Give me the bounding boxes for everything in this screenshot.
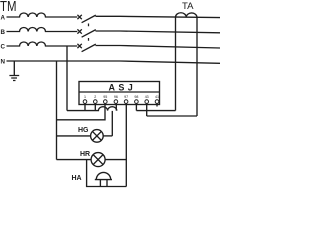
svg-text:TM: TM [0, 0, 17, 15]
svg-text:B: B [1, 29, 6, 36]
svg-text:2: 2 [94, 95, 96, 99]
svg-text:95: 95 [103, 95, 107, 99]
svg-text:TA: TA [182, 1, 194, 11]
svg-text:98: 98 [134, 95, 138, 99]
svg-text:HA: HA [72, 175, 82, 182]
svg-text:HG: HG [78, 127, 89, 134]
svg-text:97: 97 [124, 95, 128, 99]
svg-text:N: N [1, 58, 6, 65]
svg-text:96: 96 [114, 95, 118, 99]
svg-text:41: 41 [155, 95, 159, 99]
svg-text:HR: HR [80, 151, 90, 158]
svg-text:1: 1 [84, 95, 86, 99]
svg-text:43: 43 [145, 95, 149, 99]
svg-text:C: C [1, 43, 6, 50]
svg-text:A: A [1, 14, 6, 21]
svg-text:ASJ: ASJ [109, 83, 137, 93]
